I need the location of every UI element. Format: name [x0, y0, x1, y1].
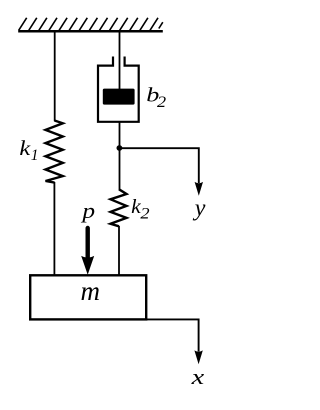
svg-text:k: k — [19, 136, 31, 160]
node junction dot — [117, 145, 123, 151]
wire from spring k2 to mass — [118, 226, 120, 276]
arrowhead x — [194, 350, 202, 364]
svg-text:y: y — [193, 196, 206, 222]
force arrow p head — [81, 256, 94, 275]
wire from damper to node — [119, 122, 121, 190]
wire from mass to x arrow — [146, 319, 199, 351]
ceiling line — [18, 30, 163, 33]
spring k1 — [46, 121, 63, 183]
svg-text:2: 2 — [157, 94, 166, 111]
svg-text:x: x — [190, 364, 204, 389]
wire from node to y arrow — [120, 148, 199, 183]
spring k2 — [111, 189, 127, 226]
force arrow p shaft — [85, 228, 89, 259]
svg-text:1: 1 — [31, 147, 39, 164]
mass m box — [30, 275, 146, 319]
damper b2 piston — [103, 89, 135, 105]
svg-text:2: 2 — [140, 205, 149, 222]
wire from spring k1 to mass — [53, 182, 55, 276]
svg-text:p: p — [80, 198, 95, 223]
ceiling hatching — [19, 18, 163, 31]
wire from ceiling to spring k1 — [54, 31, 56, 121]
damper b2 cylinder — [98, 57, 139, 122]
arrowhead y — [195, 182, 203, 196]
damper rod from ceiling — [119, 31, 121, 89]
svg-text:m: m — [81, 276, 101, 306]
